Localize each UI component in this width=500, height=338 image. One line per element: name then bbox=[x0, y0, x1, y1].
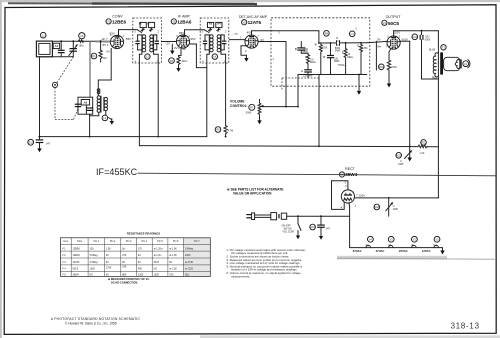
svg-text:6#: 6# bbox=[114, 46, 118, 50]
svg-text:A PHOTOFACT STANDARD NOTATI: A PHOTOFACT STANDARD NOTATION SCHEMATIC bbox=[51, 317, 141, 321]
svg-text:270: 270 bbox=[122, 254, 127, 257]
svg-text:A1: A1 bbox=[55, 44, 59, 48]
svg-text:12AT6: 12AT6 bbox=[73, 261, 81, 264]
svg-text:⊕ 1.5K: ⊕ 1.5K bbox=[169, 247, 177, 250]
svg-text:4.7M: 4.7M bbox=[228, 129, 233, 132]
svg-text:⊕ 4730: ⊕ 4730 bbox=[185, 261, 194, 264]
svg-text:-.7V: -.7V bbox=[233, 32, 238, 36]
svg-text:12BA6: 12BA6 bbox=[177, 19, 192, 24]
svg-text:2470: 2470 bbox=[154, 261, 160, 264]
svg-text:35W4: 35W4 bbox=[73, 274, 80, 277]
svg-text:5.8Meg: 5.8Meg bbox=[185, 247, 194, 250]
svg-text:50C5: 50C5 bbox=[73, 268, 79, 271]
svg-text:R11: R11 bbox=[421, 142, 426, 145]
svg-text:Pin 3: Pin 3 bbox=[126, 240, 132, 243]
svg-text:12BE6: 12BE6 bbox=[73, 247, 81, 250]
svg-text:AMP: AMP bbox=[393, 208, 399, 211]
svg-text:.047: .047 bbox=[46, 142, 51, 145]
svg-text:MEG: MEG bbox=[310, 61, 316, 64]
svg-text:⊕ 1.2Ω: ⊕ 1.2Ω bbox=[154, 254, 162, 257]
svg-text:0Ω: 0Ω bbox=[122, 247, 125, 250]
svg-text:NC: NC bbox=[90, 274, 94, 277]
svg-text:BLUE: BLUE bbox=[429, 49, 436, 52]
svg-text:AF 7: AF 7 bbox=[102, 37, 108, 41]
svg-text:DET-AVC-AF AMP: DET-AVC-AF AMP bbox=[239, 15, 268, 19]
svg-text:1300: 1300 bbox=[154, 274, 160, 277]
svg-text:D: D bbox=[323, 56, 325, 59]
svg-text:VALUE OR APPLICATION: VALUE OR APPLICATION bbox=[233, 191, 272, 195]
svg-text:150Ω: 150Ω bbox=[391, 66, 397, 69]
svg-text:0#: 0# bbox=[378, 44, 382, 48]
svg-text:1.5K: 1.5K bbox=[106, 247, 111, 250]
svg-text:A3: A3 bbox=[209, 22, 213, 26]
svg-text:AMP: AMP bbox=[398, 163, 404, 166]
svg-text:4.5Meg: 4.5Meg bbox=[90, 261, 99, 264]
svg-text:B: B bbox=[295, 48, 297, 51]
svg-text:A: A bbox=[301, 70, 303, 73]
svg-text:470K: 470K bbox=[322, 46, 328, 49]
svg-text:93V: 93V bbox=[110, 32, 115, 36]
svg-text:OUTPUT: OUTPUT bbox=[386, 15, 402, 19]
svg-text:A5: A5 bbox=[84, 101, 88, 105]
svg-text:318-13: 318-13 bbox=[451, 321, 480, 330]
svg-text:NC: NC bbox=[154, 268, 158, 271]
svg-text:CONTROL: CONTROL bbox=[230, 104, 247, 108]
svg-text:5.8Meg: 5.8Meg bbox=[90, 254, 99, 257]
svg-text:[A]: [A] bbox=[434, 244, 437, 247]
svg-text:[A]: [A] bbox=[366, 244, 369, 247]
svg-text:1.2K: 1.2K bbox=[420, 152, 425, 155]
svg-text:330: 330 bbox=[90, 247, 95, 250]
svg-text:C15: C15 bbox=[310, 226, 315, 229]
svg-text:Pin 6: Pin 6 bbox=[173, 240, 179, 243]
svg-text:Pin 7: Pin 7 bbox=[194, 240, 200, 243]
svg-text:IF=455KC: IF=455KC bbox=[96, 167, 138, 177]
svg-text:2V 0: 2V 0 bbox=[174, 46, 180, 50]
svg-text:RESISTANCE READINGS: RESISTANCE READINGS bbox=[127, 231, 160, 235]
svg-text:12BA6: 12BA6 bbox=[73, 254, 81, 257]
svg-text:50C5: 50C5 bbox=[388, 21, 399, 26]
svg-text:6#: 6# bbox=[183, 47, 187, 51]
svg-text:A: A bbox=[305, 56, 307, 59]
svg-text:12AT6: 12AT6 bbox=[248, 20, 262, 25]
svg-text:88Ω: 88Ω bbox=[79, 44, 84, 47]
svg-text:Pin 4: Pin 4 bbox=[142, 240, 148, 243]
svg-text:0V: 0V bbox=[377, 37, 381, 41]
svg-text:25VAC: 25VAC bbox=[399, 249, 408, 253]
svg-text:-55V: -55V bbox=[125, 37, 131, 41]
svg-text:170K: 170K bbox=[106, 266, 112, 269]
svg-text:[A]: [A] bbox=[388, 244, 391, 247]
svg-text:750: 750 bbox=[169, 274, 174, 277]
svg-text:12BE6: 12BE6 bbox=[112, 19, 126, 24]
svg-text:M13: M13 bbox=[374, 206, 379, 209]
svg-text:B: B bbox=[315, 44, 317, 47]
svg-text:Item: Item bbox=[63, 240, 68, 243]
svg-text:C: C bbox=[336, 37, 338, 40]
svg-text:55Ω: 55Ω bbox=[185, 274, 190, 277]
svg-text:MMF: MMF bbox=[335, 49, 341, 52]
svg-text:⊕ 1.5K: ⊕ 1.5K bbox=[169, 254, 177, 257]
svg-text:500K: 500K bbox=[246, 112, 252, 115]
svg-text:RECT: RECT bbox=[345, 167, 356, 171]
svg-text:0V: 0V bbox=[107, 49, 111, 53]
svg-text:140: 140 bbox=[122, 265, 127, 268]
svg-text:R10: R10 bbox=[379, 66, 384, 69]
svg-text:7 120V: 7 120V bbox=[356, 194, 365, 198]
svg-text:Pin 5: Pin 5 bbox=[157, 240, 163, 243]
svg-text:600V: 600V bbox=[425, 38, 431, 41]
svg-text:MEG: MEG bbox=[347, 56, 353, 59]
svg-text:220Ω: 220Ω bbox=[182, 60, 188, 63]
svg-text:⊕ 1.2KΩ: ⊕ 1.2KΩ bbox=[154, 247, 164, 250]
svg-text:270: 270 bbox=[138, 247, 143, 250]
svg-text:TOTAL: TOTAL bbox=[338, 64, 346, 67]
svg-text:[A]: [A] bbox=[411, 244, 414, 247]
svg-text:.047: .047 bbox=[325, 228, 330, 231]
svg-text:22K: 22K bbox=[103, 57, 108, 60]
svg-text:87VAC: 87VAC bbox=[353, 249, 362, 253]
svg-text:VOLUME: VOLUME bbox=[230, 100, 245, 104]
svg-text:95V: 95V bbox=[179, 31, 184, 35]
svg-text:IF AMP: IF AMP bbox=[178, 15, 190, 19]
svg-text:MMF: MMF bbox=[334, 60, 340, 63]
svg-text:⊕ 1.2K: ⊕ 1.2K bbox=[169, 268, 177, 271]
svg-text:12VAC: 12VAC bbox=[422, 249, 431, 253]
svg-text:Tube: Tube bbox=[77, 240, 83, 243]
svg-text:CONV: CONV bbox=[112, 15, 123, 19]
svg-text:8Ω: 8Ω bbox=[122, 261, 125, 264]
svg-text:C14: C14 bbox=[413, 36, 418, 39]
svg-text:measurements.: measurements. bbox=[231, 274, 250, 278]
svg-text:2200: 2200 bbox=[185, 254, 191, 257]
svg-text:1300: 1300 bbox=[138, 274, 144, 277]
svg-text:470K: 470K bbox=[362, 47, 368, 50]
svg-text:37VAC: 37VAC bbox=[376, 249, 385, 253]
svg-text:DC-NO CONNECTION.: DC-NO CONNECTION. bbox=[111, 280, 138, 284]
svg-text:LS: LS bbox=[464, 63, 467, 66]
svg-text:⊕ 2226: ⊕ 2226 bbox=[185, 268, 194, 271]
svg-text:-.2V: -.2V bbox=[165, 42, 170, 46]
svg-text:Pin 1: Pin 1 bbox=[94, 240, 100, 243]
svg-text:A4: A4 bbox=[217, 22, 221, 26]
svg-text:400: 400 bbox=[138, 268, 143, 271]
svg-text:880: 880 bbox=[122, 274, 127, 277]
svg-text:1300: 1300 bbox=[90, 268, 96, 271]
svg-text:VOL CONT: VOL CONT bbox=[283, 231, 296, 234]
svg-text:0Ω: 0Ω bbox=[138, 254, 141, 257]
svg-text:C12: C12 bbox=[29, 142, 34, 145]
svg-text:Pin 2: Pin 2 bbox=[110, 240, 116, 243]
svg-text:C: C bbox=[357, 44, 359, 47]
svg-text:M12: M12 bbox=[396, 155, 401, 158]
svg-text:© Howard W. Sams & Co., Inc. 1: © Howard W. Sams & Co., Inc. 1956 bbox=[65, 322, 117, 326]
svg-text:95V: 95V bbox=[191, 37, 196, 41]
svg-text:8V 1: 8V 1 bbox=[103, 43, 109, 47]
